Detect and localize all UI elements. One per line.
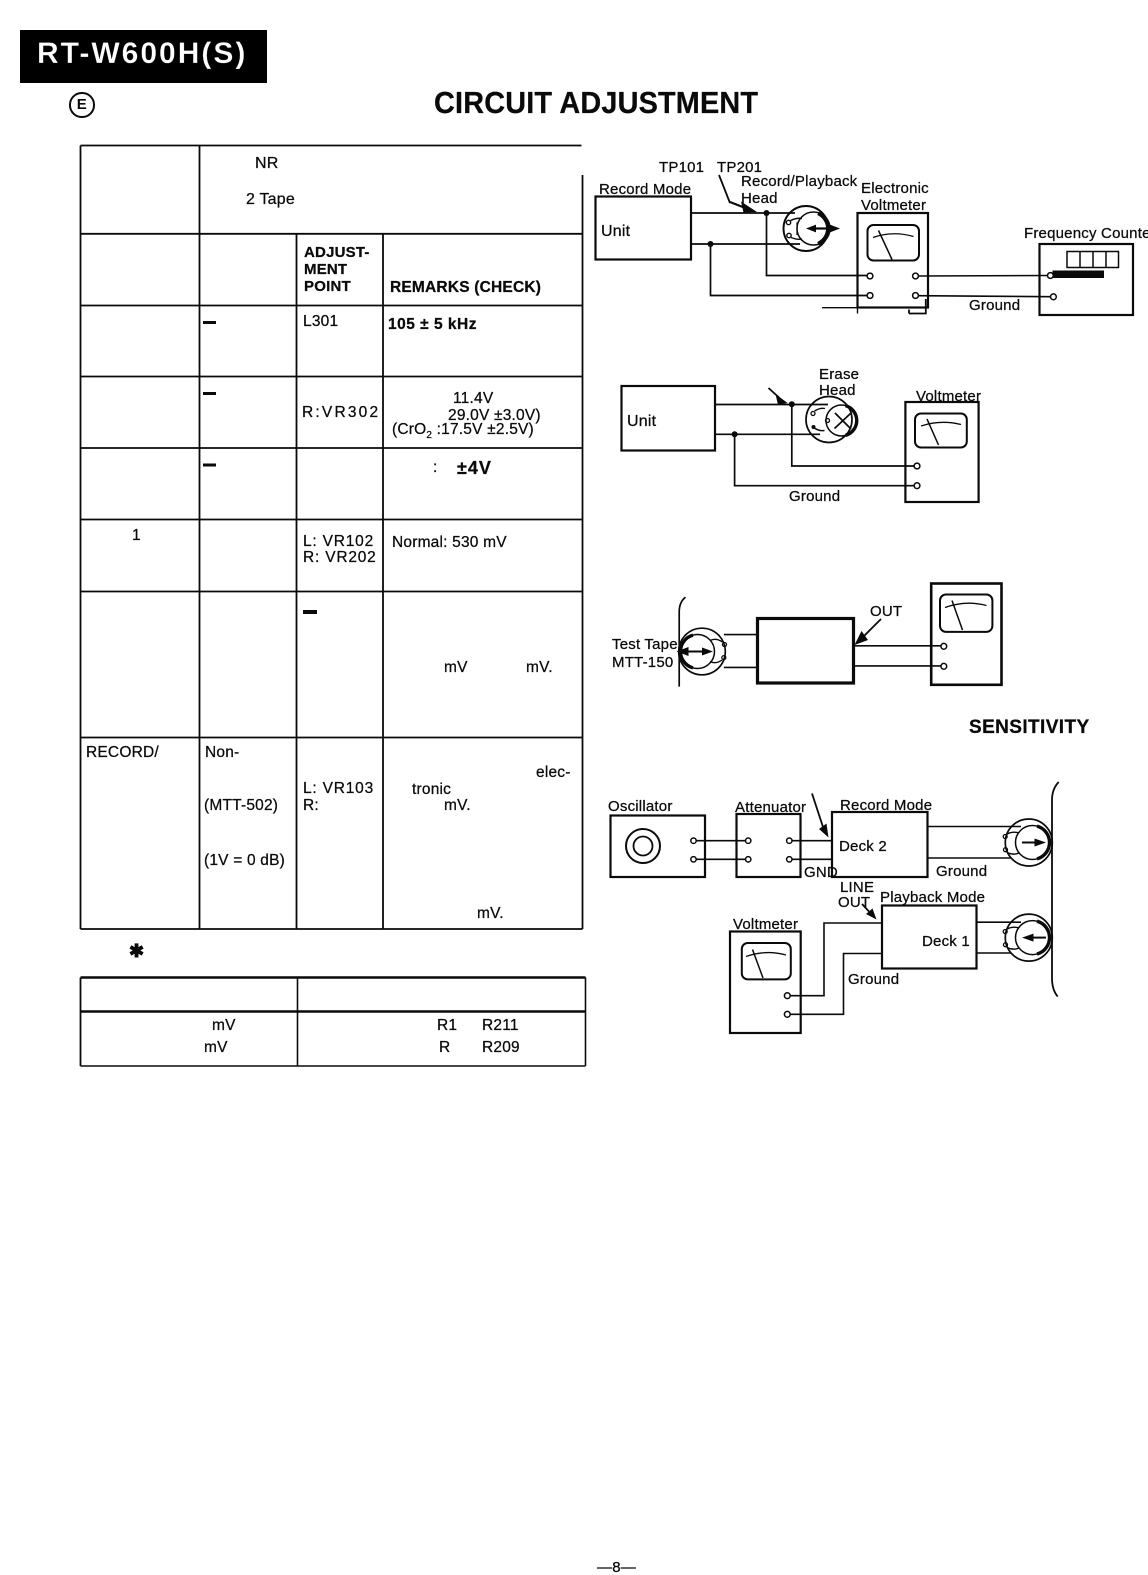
label Oscillator [608,798,673,815]
voltmeter d2 needle [927,419,939,445]
oscillator dial outer [626,829,660,863]
table1 row2 dash [203,392,216,395]
oscillator box [611,816,706,878]
voltmeter d2 box [905,402,978,502]
label Record/Playback Head [741,174,857,207]
table1 row6 (1V = 0 dB) [204,852,285,870]
wire head to voltmeter (hot) [767,213,867,276]
voltmeter d4 display [742,943,791,979]
table2 cell mV row2 [204,1039,228,1057]
wire oscillator to attenuator (bottom) [696,858,745,860]
unit box d1 [596,197,692,260]
wire deck1 to playback head (top) [977,921,1022,923]
voltmeter d2 terminals [914,463,920,469]
model name plate RT-W600H(S) [20,30,267,83]
wire deck to voltmeter d3 (hot) [854,645,941,647]
table1 header 2 Tape [246,191,295,209]
label GND [804,864,838,881]
frequency counter box [1040,244,1134,315]
OUT pointer arrow [863,619,881,637]
cassette shell arc d4 [1052,782,1059,997]
table1 row2 remark line3 [392,421,534,442]
label Electronic Voltmeter [861,180,929,214]
electronic voltmeter box [858,213,929,308]
table1 row4 remark [392,534,507,552]
wire erase head to voltmeter (hot) [792,405,914,467]
record head symbol d4 [1003,819,1052,866]
voltmeter d1 needle [879,231,893,260]
voltmeter d3 box [931,584,1001,685]
table1 row6 R: [303,797,319,815]
label Unit d1 [601,223,630,241]
voltmeter d4 needle [753,950,764,979]
label Voltmeter d2 [916,388,981,405]
label Record Mode d4 [840,797,932,814]
voltmeter d1 display [868,225,920,261]
label Erase Head [819,367,859,398]
label Frequency Counter [1024,225,1148,242]
TP201 pointer arrow [719,175,730,203]
oscillator dial inner [634,837,653,856]
wire unit to head (hot) [691,212,795,214]
table1 row6 mV. second [477,905,504,923]
playback head symbol d4 [1003,914,1052,961]
table1 row2 remark line1 [453,390,493,408]
footnote asterisk [129,941,144,962]
label Deck 2 [839,838,887,855]
LINE OUT pointer arrow [862,904,869,912]
table1 row5 remark mV. [526,659,553,677]
wire deck2 to record head (top) [928,826,1022,828]
label Record Mode d1 [599,181,691,198]
wire voltmeter to frequency counter (ground) [918,296,1050,297]
playback head symbol d3 [677,628,727,675]
label Playback Mode [880,889,985,906]
wire deck to voltmeter d3 (ground) [854,665,941,667]
heading SENSITIVITY [969,717,1090,739]
table2 cell R1 R211 [437,1017,457,1035]
label Ground d2 [789,488,840,505]
wire unit to erase head (return) [715,433,820,435]
voltmeter d3 needle [952,601,963,631]
unit box d2 [622,386,716,451]
table1 row6 Non- [205,744,239,762]
table1 row6 tronic [412,781,451,799]
record/playback head symbol [784,206,841,251]
node TP201 junction [764,210,770,216]
label TP101 [659,159,704,176]
wire deck2 to record head (bottom) [928,857,1011,859]
voltmeter d1 scale arc [873,234,914,238]
node junction on return wire [708,241,714,247]
table1 row6 elec- [536,764,571,782]
table1 row2 R:VR302 [302,404,380,422]
table1 row6 (MTT-502) [204,797,278,815]
label Deck 1 [922,933,970,950]
wire to voltmeter d2 (ground) [735,434,914,485]
page number [597,1559,636,1575]
table1 row3 remark [433,459,438,477]
label LINE OUT [838,880,874,910]
node junction d2 return [732,431,738,437]
table1 row1 remark [388,316,477,334]
erase head symbol [806,397,857,443]
voltmeter d4 box [730,932,801,1034]
wire unit to erase head (hot) [715,404,828,406]
label Unit d2 [627,413,656,431]
table1 row5 dash [303,610,317,614]
stray line left of voltmeter bottom [822,307,858,309]
table1 row6 mV. [444,797,471,815]
table2 cell R R209 [439,1039,450,1057]
wire head to deck box (hot) [724,634,758,636]
label Test Tape MTT-150 [612,636,678,671]
wire deck1 line-out to voltmeter [790,923,882,996]
table2 borders [81,978,586,1067]
wire deck1 ground to voltmeter [790,954,882,1015]
table2 cell mV row1 [212,1017,236,1035]
cassette shell arc d3 [679,597,685,686]
page title CIRCUIT ADJUSTMENT [434,85,758,121]
attenuator box [737,814,801,877]
table1 row1 L301 [303,313,338,331]
table1 header REMARKS (CHECK) [390,279,541,297]
voltmeter d3 scale arc [945,603,987,607]
voltmeter d3 terminals [941,643,947,649]
circled E mark [69,92,95,118]
label Ground d4 record [936,863,987,880]
wire attenuator to deck2 (top) [792,840,832,842]
table1 row3 remark value [457,458,492,479]
label TP201 [717,159,762,176]
deck1 box [882,906,977,969]
table1 borders [81,146,583,930]
label Ground d4 playback [848,971,899,988]
wire attenuator to deck2 (bottom) [792,858,832,860]
deck2 box [832,812,928,877]
table1 row4 adj point [303,534,377,565]
deck box d3 [758,619,854,684]
oscillator terminals [691,838,696,843]
voltmeter d4 terminals [784,993,790,999]
wire voltmeter to frequency counter (signal) [918,275,1047,278]
frequency counter terminal signal [1048,273,1054,279]
label Voltmeter d4 [733,916,798,933]
voltmeter d3 display [940,595,992,632]
attenuator terminals [746,838,751,843]
wire oscillator to attenuator (top) [696,840,745,842]
table1 row5 remark mV [444,659,468,677]
wire deck1 to playback head (bottom) [977,952,1011,954]
table1 header ADJUSTMENT POINT [304,244,370,295]
wire head to deck box (return) [724,666,758,668]
table1 row4 col1 [132,527,141,545]
label Ground d1 [969,297,1020,314]
pointer arrow d2 [769,388,780,398]
table1 header NR [255,155,279,173]
node junction d2 hot [789,401,795,407]
table1 row2 remark line2 [448,407,541,425]
frequency counter terminal ground [1051,294,1057,300]
wire unit to head (return) [691,243,800,245]
table1 row6 L: VR103 [303,780,374,798]
voltmeter d1 terminals [867,273,873,279]
voltmeter d2 display [915,414,967,448]
pointer arrow deck2 [812,794,823,828]
table1 row3 dash [203,464,216,467]
voltmeter d2 scale arc [921,422,961,426]
table1 row6 RECORD/ [86,744,159,762]
label Attenuator [735,799,806,816]
wire to voltmeter (ground) [711,244,867,296]
voltmeter d4 scale arc [746,953,786,957]
frequency counter digit window [1067,252,1119,268]
frequency counter black bar [1053,271,1105,279]
label OUT d3 [870,603,902,620]
stray notch bottom right of voltmeter [909,299,926,314]
table1 row1 dash [203,321,216,324]
